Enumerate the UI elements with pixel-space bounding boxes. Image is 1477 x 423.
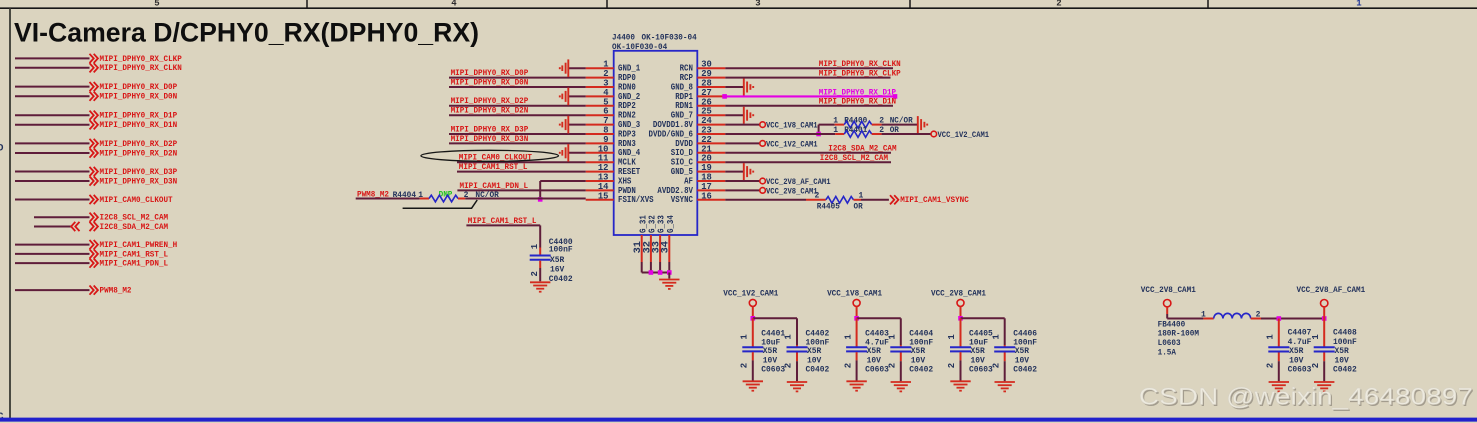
- ground at pin 25 (rotated right): [744, 107, 753, 124]
- wire MIPI_CAM1_RST_L horizontal: [466, 224, 540, 226]
- svg-text:VCC_1V2_CAM1: VCC_1V2_CAM1: [766, 140, 818, 149]
- ground C4407: [1269, 382, 1289, 391]
- port MIPI_CAM1_VSYNC: [890, 195, 894, 204]
- ground at pin 28 (rotated right): [744, 79, 753, 96]
- svg-text:MIPI_DPHY0_RX_CLKP: MIPI_DPHY0_RX_CLKP: [819, 70, 901, 79]
- pin 1 stub (GND_1): [586, 67, 614, 69]
- svg-text:100nF: 100nF: [1333, 338, 1357, 347]
- pin 34 wire to ground bus: [668, 262, 670, 273]
- power port circle VCC_2V8_AF_CAM1: [760, 178, 766, 184]
- annotation ellipse around MIPI_CAM0_CLKOUT: [421, 150, 559, 161]
- wire net MIPI_DPHY0_RX_D2P to pin 5: [449, 105, 586, 107]
- svg-text:MIPI_DPHY0_RX_D2P: MIPI_DPHY0_RX_D2P: [100, 140, 178, 149]
- FB4400 right stub: [1251, 318, 1261, 320]
- selection handle left on D1P wire: [722, 94, 727, 99]
- capacitor C4400: [539, 248, 541, 255]
- pin 7 stub (GND_3): [586, 124, 614, 126]
- pin 31 stub (G_31): [641, 235, 643, 262]
- wire port MIPI_DPHY0_RX_D3N: [15, 180, 90, 182]
- svg-text:OR: OR: [854, 203, 863, 212]
- wire pin 22 to power port: [725, 142, 760, 144]
- R4400 right stub: [872, 124, 882, 126]
- border zone tick x=607: [606, 0, 608, 8]
- wire down to C4406: [1004, 318, 1006, 345]
- port MIPI_DPHY0_RX_D2N: [90, 148, 94, 157]
- capacitor C4405: [960, 318, 962, 346]
- wire pin 18 to power port: [725, 180, 760, 182]
- svg-text:C0603: C0603: [969, 366, 993, 375]
- svg-text:C0402: C0402: [549, 275, 573, 284]
- svg-text:MIPI_DPHY0_RX_D0N: MIPI_DPHY0_RX_D0N: [100, 93, 178, 102]
- wire down to C4402: [796, 318, 798, 345]
- lead from VCC_2V8_CAM1: [960, 307, 962, 319]
- svg-text:1: 1: [784, 334, 794, 340]
- svg-text:C4407: C4407: [1288, 328, 1312, 337]
- svg-text:10V: 10V: [971, 356, 985, 365]
- wire port MIPI_DPHY0_RX_D0N: [15, 95, 90, 97]
- svg-text:X5R: X5R: [1289, 347, 1303, 356]
- svg-text:VCC_2V8_AF_CAM1: VCC_2V8_AF_CAM1: [766, 178, 831, 187]
- wire port MIPI_DPHY0_RX_D3P: [15, 171, 90, 173]
- svg-text:I2C8_SDA_M2_CAM: I2C8_SDA_M2_CAM: [828, 145, 896, 154]
- wire FB4400 to caps: [1261, 318, 1324, 320]
- junction dot pin34: [667, 270, 672, 275]
- port MIPI_DPHY0_RX_D0N: [90, 92, 94, 101]
- svg-text:MIPI_DPHY0_RX_D1P: MIPI_DPHY0_RX_D1P: [819, 88, 896, 97]
- svg-text:MIPI_CAM0_CLKOUT: MIPI_CAM0_CLKOUT: [100, 196, 173, 205]
- svg-text:10V: 10V: [911, 356, 925, 365]
- svg-text:X5R: X5R: [911, 347, 925, 356]
- svg-text:R4404: R4404: [393, 191, 417, 200]
- vertical wire linking rows 24-23: [818, 125, 820, 134]
- junction dot C4408: [1322, 316, 1327, 321]
- svg-text:MIPI_CAM1_PDN_L: MIPI_CAM1_PDN_L: [100, 260, 169, 269]
- svg-text:2: 2: [740, 363, 750, 368]
- pin 2 stub (RDP0): [586, 77, 614, 79]
- svg-text:1: 1: [1266, 334, 1276, 340]
- lead from VCC_2V8_AF_CAM1: [1323, 307, 1325, 319]
- wire VCC_2V8_CAM1 to C4406: [961, 317, 1005, 319]
- lead from VCC_1V2_CAM1: [752, 307, 754, 319]
- power port circle VCC_2V8_CAM1 pin17: [760, 188, 766, 194]
- wire R4404 to pin 15: [465, 198, 586, 200]
- svg-text:C4402: C4402: [806, 329, 830, 338]
- pin 14 stub (PWDN): [586, 189, 614, 191]
- sheet border left line: [9, 8, 11, 418]
- junction dot C4407: [1277, 316, 1282, 321]
- pin 30 stub (RCN): [697, 67, 725, 69]
- svg-text:MIPI_DPHY0_RX_D1N: MIPI_DPHY0_RX_D1N: [100, 121, 178, 130]
- svg-text:1.5A: 1.5A: [1158, 349, 1177, 358]
- svg-text:4.7uF: 4.7uF: [1288, 338, 1312, 347]
- svg-text:C0402: C0402: [806, 366, 830, 375]
- wire net MIPI_CAM0_CLKOUT to pin 11: [457, 161, 586, 163]
- wire MIPI_DPHY0_RX_CLKN from pin 30: [725, 67, 893, 69]
- ground at pin 7 (rotated left): [560, 116, 569, 134]
- svg-text:G_34: G_34: [666, 215, 676, 233]
- wire pin 24 to power port: [725, 124, 760, 126]
- port MIPI_DPHY0_RX_D3P: [90, 167, 94, 176]
- port PWM8_M2: [90, 286, 94, 295]
- wire VCC_1V2_CAM1 to C4402: [753, 317, 797, 319]
- capacitor C4401: [752, 318, 754, 346]
- pin 3 stub (RDN0): [586, 86, 614, 88]
- pin 10 stub (GND_4): [586, 152, 614, 154]
- svg-text:2: 2: [843, 363, 853, 368]
- resistor R4404: [429, 195, 458, 202]
- port MIPI_CAM1_RST_L: [90, 249, 94, 258]
- svg-text:1: 1: [888, 334, 898, 340]
- wire down to C4400: [539, 225, 541, 247]
- wire after VCC_1V8_CAM1 label: [819, 124, 835, 126]
- wire port MIPI_CAM0_CLKOUT: [15, 199, 90, 201]
- wire port MIPI_CAM1_RST_L: [15, 253, 90, 255]
- wire port MIPI_DPHY0_RX_CLKP: [15, 57, 90, 59]
- annotation pointer line at R4404: [403, 200, 478, 208]
- svg-text:X5R: X5R: [763, 347, 777, 356]
- svg-text:MIPI_DPHY0_RX_D2N: MIPI_DPHY0_RX_D2N: [100, 149, 178, 158]
- svg-text:16: 16: [701, 191, 712, 201]
- svg-text:MIPI_CAM1_PWREN_H: MIPI_CAM1_PWREN_H: [100, 241, 178, 250]
- connector J4400 body: [614, 51, 698, 235]
- svg-text:3: 3: [755, 0, 760, 9]
- port MIPI_DPHY0_RX_D2P: [90, 139, 94, 148]
- resistor R4405: [826, 197, 854, 204]
- port MIPI_DPHY0_RX_D1N: [90, 120, 94, 129]
- sheet border top line: [0, 7, 1477, 9]
- junction dot row 23: [816, 132, 821, 137]
- ground IC bottom: [659, 280, 679, 289]
- svg-text:1: 1: [530, 243, 540, 249]
- svg-text:X5R: X5R: [867, 347, 881, 356]
- inductor FB4400: [1214, 313, 1251, 318]
- svg-text:I2C8_SCL_M2_CAM: I2C8_SCL_M2_CAM: [100, 214, 169, 223]
- R4405 left stub: [806, 199, 826, 201]
- wire pin 23 to R4401: [725, 133, 835, 135]
- ground at pin 4 (rotated left): [560, 88, 569, 106]
- svg-text:OK-10F030-04: OK-10F030-04: [642, 33, 697, 43]
- svg-text:10V: 10V: [1335, 356, 1349, 365]
- svg-text:R4405: R4405: [817, 203, 840, 212]
- svg-text:I2C8_SDA_M2_CAM: I2C8_SDA_M2_CAM: [100, 223, 169, 232]
- svg-text:C4404: C4404: [909, 329, 933, 338]
- svg-text:2: 2: [784, 363, 794, 368]
- left arrow on I2C8_SDA_M2_CAM: [71, 222, 75, 231]
- svg-text:1: 1: [1311, 334, 1321, 340]
- ground C4406: [995, 382, 1015, 391]
- svg-text:10V: 10V: [807, 356, 821, 365]
- port MIPI_CAM1_PWREN_H: [90, 240, 94, 249]
- port I2C8_SDA_M2_CAM: [90, 222, 94, 231]
- ground C4404: [891, 382, 911, 391]
- selection handle right on D1P wire: [893, 94, 898, 99]
- wire pin 1 to ground: [568, 67, 585, 69]
- wire PWM8_M2 to R4404: [356, 198, 420, 200]
- junction dot C4401: [751, 316, 756, 321]
- power port circle VCC_1V2_CAM1 right: [931, 131, 937, 137]
- port MIPI_DPHY0_RX_D0P: [90, 82, 94, 91]
- power port circle VCC_2V8_CAM1 right: [1164, 300, 1171, 307]
- R4404 right stub: [458, 198, 465, 200]
- pin 32 stub (G_32): [650, 235, 652, 262]
- svg-text:MIPI_CAM1_PDN_L: MIPI_CAM1_PDN_L: [460, 182, 529, 191]
- power port circle VCC_2V8_CAM1: [957, 299, 964, 306]
- svg-text:C0402: C0402: [1333, 366, 1357, 375]
- svg-text:X5R: X5R: [1015, 347, 1029, 356]
- svg-text:MIPI_DPHY0_RX_D1P: MIPI_DPHY0_RX_D1P: [100, 112, 178, 121]
- svg-text:VCC_2V8_CAM1: VCC_2V8_CAM1: [931, 290, 986, 299]
- pin 28 stub (GND_8): [697, 86, 725, 88]
- resistor R4400: [844, 121, 872, 128]
- port MIPI_DPHY0_RX_CLKP: [90, 54, 94, 63]
- wire port I2C8_SCL_M2_CAM: [34, 216, 90, 218]
- svg-text:FB4400: FB4400: [1158, 320, 1186, 329]
- svg-text:2: 2: [530, 271, 540, 276]
- wire net MIPI_DPHY0_RX_D3N to pin 9: [449, 142, 586, 144]
- svg-text:5: 5: [154, 0, 159, 9]
- svg-text:C4401: C4401: [761, 329, 785, 338]
- port MIPI_DPHY0_RX_CLKN: [90, 63, 94, 72]
- svg-text:MIPI_DPHY0_RX_D1N: MIPI_DPHY0_RX_D1N: [819, 98, 896, 107]
- junction dot C4403: [854, 316, 859, 321]
- wire R4405 to port: [861, 199, 889, 201]
- port MIPI_DPHY0_RX_D1P: [90, 111, 94, 120]
- svg-text:100nF: 100nF: [549, 245, 573, 254]
- svg-text:MIPI_DPHY0_RX_CLKN: MIPI_DPHY0_RX_CLKN: [100, 64, 182, 73]
- svg-text:MIPI_DPHY0_RX_D0P: MIPI_DPHY0_RX_D0P: [451, 69, 529, 78]
- svg-text:2: 2: [1266, 363, 1276, 368]
- wire pin 7 to ground: [568, 124, 585, 126]
- pin 6 stub (RDN2): [586, 114, 614, 116]
- capacitor C4402: [796, 345, 798, 347]
- R4404 left stub: [420, 198, 429, 200]
- svg-text:MIPI_DPHY0_RX_CLKN: MIPI_DPHY0_RX_CLKN: [819, 60, 901, 69]
- pin 4 stub (GND_2): [586, 95, 614, 97]
- wire I2C8_SDA_M2_CAM from pin 21: [725, 152, 891, 154]
- svg-text:C0603: C0603: [865, 366, 889, 375]
- junction dot pin32: [649, 270, 654, 275]
- wire pin 19 GND_5 to ground: [725, 171, 744, 173]
- pin 25 stub (GND_7): [697, 114, 725, 116]
- resistor R4401: [844, 131, 872, 138]
- pin 22 stub (DVDD): [697, 142, 725, 144]
- wire pin 17 to power port: [725, 189, 760, 191]
- capacitor C4408: [1323, 319, 1325, 347]
- wire net MIPI_DPHY0_RX_D3P to pin 8: [449, 133, 586, 135]
- pin 33 wire to ground bus: [659, 262, 661, 273]
- wire port MIPI_DPHY0_RX_D0P: [15, 86, 90, 88]
- lead from VCC_1V8_CAM1: [856, 307, 858, 319]
- svg-text:VSYNC: VSYNC: [671, 195, 694, 205]
- svg-text:MIPI_DPHY0_RX_D3P: MIPI_DPHY0_RX_D3P: [451, 125, 529, 134]
- svg-text:10V: 10V: [867, 356, 881, 365]
- wire highlighted net MIPI_DPHY0_RX_D1P from pin 27: [725, 95, 895, 97]
- svg-text:1: 1: [1356, 0, 1362, 9]
- pin 20 stub (SIO_C): [697, 161, 725, 163]
- pin 12 stub (RESET): [586, 171, 614, 173]
- svg-text:C0402: C0402: [909, 366, 933, 375]
- pin 21 stub (SIO_D): [697, 152, 725, 154]
- ground C4400: [530, 282, 550, 291]
- svg-text:VCC_2V8_CAM1: VCC_2V8_CAM1: [1141, 286, 1196, 295]
- lead from VCC_2V8_CAM1 right: [1166, 307, 1168, 314]
- pin 26 stub (RDN1): [697, 105, 725, 107]
- svg-text:D: D: [0, 144, 4, 155]
- pin 33 stub (G_33): [659, 235, 661, 262]
- svg-text:10V: 10V: [763, 356, 777, 365]
- svg-text:VCC_2V8_AF_CAM1: VCC_2V8_AF_CAM1: [1297, 286, 1366, 295]
- pin 27 stub (RDP1): [697, 95, 725, 97]
- wire MIPI_DPHY0_RX_CLKP from pin 29: [725, 77, 890, 79]
- svg-text:C4405: C4405: [969, 329, 993, 338]
- svg-text:16V: 16V: [550, 265, 564, 274]
- pin 13 stub (XHS): [586, 180, 614, 182]
- pin 24 stub (DOVDD1.8V): [697, 124, 725, 126]
- ground at pin 19 (rotated right): [744, 163, 753, 180]
- capacitor C4407: [1278, 319, 1280, 347]
- wire net MIPI_CAM1_RST_L to pin 12: [457, 171, 586, 173]
- ground at pin 1 (rotated left): [560, 59, 569, 77]
- svg-text:2: 2: [1056, 0, 1061, 9]
- svg-text:FSIN/XVS: FSIN/XVS: [618, 195, 654, 205]
- wire I2C8_SCL_M2_CAM from pin 20: [725, 161, 891, 163]
- wire pin 13 horizontal: [540, 180, 586, 182]
- svg-text:VCC_2V8_CAM1: VCC_2V8_CAM1: [766, 187, 818, 196]
- wire R4401 to power port: [882, 133, 931, 135]
- R4401 left stub: [835, 133, 844, 135]
- pin 34 stub (G_34): [668, 235, 670, 262]
- wire net MIPI_DPHY0_RX_D2N to pin 6: [449, 114, 586, 116]
- wire IC ground bus: [642, 272, 670, 274]
- svg-text:VCC_1V2_CAM1: VCC_1V2_CAM1: [938, 131, 990, 140]
- wire port I2C8_SDA_M2_CAM: [34, 226, 71, 228]
- svg-text:X5R: X5R: [971, 347, 985, 356]
- svg-text:2: 2: [1311, 363, 1321, 368]
- wire pin 13 vertical to pin15 net: [539, 181, 541, 200]
- ground C4402: [787, 382, 807, 391]
- svg-text:X5R: X5R: [1335, 347, 1349, 356]
- port MIPI_DPHY0_RX_D3N: [90, 176, 94, 185]
- svg-text:C4408: C4408: [1333, 328, 1357, 337]
- capacitor C4403: [856, 318, 858, 346]
- wire MIPI_DPHY0_RX_D1N from pin 26: [725, 105, 893, 107]
- junction dot at pin15 net: [538, 197, 543, 202]
- svg-text:X5R: X5R: [807, 347, 821, 356]
- R4400 left stub: [835, 124, 845, 126]
- svg-text:180R-100M: 180R-100M: [1158, 330, 1200, 339]
- power port circle VCC_2V8_AF_CAM1 right: [1321, 300, 1328, 307]
- wire pin 4 to ground: [568, 95, 585, 97]
- svg-text:1: 1: [740, 334, 750, 340]
- svg-text:2: 2: [991, 363, 1001, 368]
- wire net MIPI_CAM1_PDN_L to pin 14: [457, 189, 585, 191]
- svg-text:MIPI_DPHY0_RX_D0N: MIPI_DPHY0_RX_D0N: [451, 78, 529, 87]
- border zone tick x=307: [306, 0, 308, 8]
- svg-text:MIPI_DPHY0_RX_D0P: MIPI_DPHY0_RX_D0P: [100, 83, 178, 92]
- wire pin 28 GND_8 to ground: [725, 86, 744, 88]
- wire port MIPI_DPHY0_RX_CLKN: [15, 67, 90, 69]
- svg-text:X5R: X5R: [550, 256, 564, 265]
- svg-text:4: 4: [451, 0, 457, 9]
- wire pin 25 GND_7 to ground: [725, 114, 744, 116]
- svg-text:MIPI_CAM1_RST_L: MIPI_CAM1_RST_L: [459, 163, 528, 172]
- border zone tick x=910: [909, 0, 911, 8]
- svg-text:C4406: C4406: [1013, 329, 1037, 338]
- svg-text:C4403: C4403: [865, 329, 889, 338]
- border zone tick x=1208: [1207, 0, 1209, 8]
- wire down to C4404: [900, 318, 902, 345]
- wire port MIPI_CAM1_PDN_L: [15, 262, 90, 264]
- svg-text:MIPI_DPHY0_RX_CLKP: MIPI_DPHY0_RX_CLKP: [100, 55, 182, 64]
- pin 31 wire to ground bus: [641, 262, 643, 273]
- wire port MIPI_DPHY0_RX_D1P: [15, 114, 90, 116]
- svg-text:1: 1: [947, 334, 957, 340]
- pin 18 stub (AF): [697, 180, 725, 182]
- power port circle VCC_1V8_CAM1: [853, 299, 860, 306]
- capacitor C4404: [900, 345, 902, 347]
- port MIPI_CAM0_CLKOUT: [90, 195, 94, 204]
- port I2C8_SCL_M2_CAM: [90, 213, 94, 222]
- junction dot C4405: [958, 316, 963, 321]
- wire to IC ground symbol: [668, 273, 670, 279]
- power port circle VCC_1V2_CAM1 pin22: [760, 141, 766, 147]
- ground after R4400 (rotated right): [918, 116, 927, 133]
- FB4400 left stub: [1203, 318, 1213, 320]
- svg-text:MIPI_CAM1_VSYNC: MIPI_CAM1_VSYNC: [900, 196, 969, 205]
- junction dot pin33: [658, 270, 663, 275]
- R4405 right stub: [854, 199, 862, 201]
- svg-text:L0603: L0603: [1158, 339, 1181, 348]
- pin 29 stub (RCP): [697, 77, 725, 79]
- wire R4400 to ground: [882, 124, 918, 126]
- svg-text:CSDN @weixin_46480897: CSDN @weixin_46480897: [1139, 383, 1473, 410]
- wire port PWM8_M2: [15, 289, 90, 291]
- svg-text:VCC_1V8_CAM1: VCC_1V8_CAM1: [827, 290, 882, 299]
- ground C4408: [1314, 382, 1334, 391]
- pin 17 stub (AVDD2.8V): [697, 189, 725, 191]
- pin 11 stub (MCLK): [586, 161, 614, 163]
- svg-text:J4400: J4400: [612, 33, 635, 43]
- pin 19 stub (GND_5): [697, 171, 725, 173]
- svg-text:2: 2: [888, 363, 898, 368]
- svg-text:C0603: C0603: [761, 366, 785, 375]
- svg-text:MIPI_DPHY0_RX_D3N: MIPI_DPHY0_RX_D3N: [100, 177, 178, 186]
- svg-text:VI-Camera D/CPHY0_RX(DPHY0_RX): VI-Camera D/CPHY0_RX(DPHY0_RX): [14, 18, 479, 48]
- svg-text:I2C8_SCL_M2_CAM: I2C8_SCL_M2_CAM: [820, 154, 888, 163]
- pin 23 stub (DVDD/GND_6): [697, 133, 725, 135]
- svg-text:VCC_1V2_CAM1: VCC_1V2_CAM1: [723, 290, 778, 299]
- pin 5 stub (RDP2): [586, 105, 614, 107]
- svg-text:15: 15: [598, 191, 609, 201]
- bottom viewport blue line: [0, 418, 1477, 422]
- pin 15 stub (FSIN/XVS): [586, 199, 614, 201]
- capacitor C4406: [1004, 345, 1006, 347]
- wire port MIPI_DPHY0_RX_D1N: [15, 124, 90, 126]
- wire VCC_1V8_CAM1 to C4404: [857, 317, 901, 319]
- pin 9 stub (RDN3): [586, 142, 614, 144]
- wire port MIPI_DPHY0_RX_D2N: [15, 152, 90, 154]
- wire port MIPI_DPHY0_RX_D2P: [15, 142, 90, 144]
- svg-text:MIPI_CAM1_RST_L: MIPI_CAM1_RST_L: [100, 250, 169, 259]
- svg-text:MIPI_DPHY0_RX_D2P: MIPI_DPHY0_RX_D2P: [451, 97, 529, 106]
- pin 16 stub (VSYNC): [697, 199, 725, 201]
- svg-text:10V: 10V: [1015, 356, 1029, 365]
- power port circle VCC_1V2_CAM1: [749, 299, 756, 306]
- svg-text:34: 34: [661, 241, 672, 253]
- svg-text:1: 1: [843, 334, 853, 340]
- wire to FB4400: [1167, 318, 1203, 320]
- wire net MIPI_DPHY0_RX_D0N to pin 3: [449, 86, 586, 88]
